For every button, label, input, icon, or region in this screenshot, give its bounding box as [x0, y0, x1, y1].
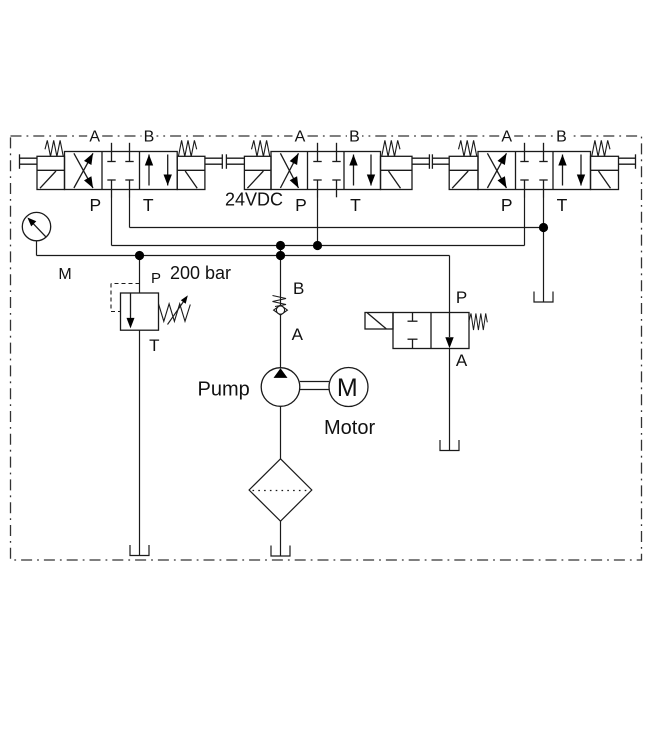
valve DCV3 closed-centre blocked ports [520, 143, 547, 198]
valve DCV1 port label B [142, 128, 157, 146]
valve DCV3 port label P [501, 195, 513, 215]
tank under DCV3 T line [534, 292, 553, 303]
svg-text:P: P [295, 195, 307, 215]
valve DCV3 crossed-flow arrows (left position) [487, 153, 506, 188]
valve DCV3 port label A [499, 128, 514, 146]
junction: relief tap on pressure line [135, 251, 144, 260]
valve DCV2 right return spring [382, 140, 400, 156]
suction filter [249, 459, 312, 521]
svg-text:A: A [89, 129, 100, 146]
valve DCV2 port label B [347, 128, 362, 146]
svg-text:B: B [293, 279, 304, 298]
svg-text:24VDC: 24VDC [225, 190, 283, 210]
svg-text:T: T [143, 195, 154, 215]
wire: relief valve to tank [139, 330, 141, 555]
valve DCV2 left manual override [226, 154, 244, 169]
valve DCV3 right return spring [592, 140, 610, 156]
wire: relief valve drop [139, 256, 141, 294]
wire: valve DCV1 P drop [111, 197, 113, 246]
valve DCV1 body (3-position boxes) [65, 152, 178, 190]
svg-text:Motor: Motor [324, 417, 375, 439]
svg-text:A: A [295, 129, 306, 146]
tank under unloading valve [440, 440, 459, 451]
junction: DCV2 P on P manifold [313, 241, 322, 250]
valve DCV2 closed-centre blocked ports [313, 143, 340, 198]
valve DCV1 port label A [87, 128, 102, 146]
valve DCV1 left return spring [45, 140, 63, 156]
svg-text:B: B [556, 129, 567, 146]
valve DCV2 left solenoid [244, 156, 271, 189]
wire: gauge drop [36, 241, 38, 256]
svg-text:P: P [501, 195, 513, 215]
valve DCV3 body (3-position boxes) [478, 152, 591, 190]
valve DCV1 left manual override [20, 154, 38, 169]
tank under filter [271, 546, 290, 557]
valve DCV1 port label P [89, 195, 101, 215]
valve DCV1 parallel-flow arrows (right position) [145, 155, 172, 186]
svg-text:T: T [149, 336, 159, 355]
check valve [273, 296, 288, 316]
unloading valve (2/2 solenoid) [365, 313, 487, 349]
valve DCV1 right return spring [178, 140, 196, 156]
svg-text:A: A [292, 325, 304, 344]
svg-text:M: M [337, 374, 358, 402]
svg-text:M: M [58, 266, 71, 283]
valve DCV1 crossed-flow arrows (left position) [74, 153, 93, 188]
valve DCV2 right solenoid [381, 156, 413, 189]
pump-motor shaft [300, 382, 329, 390]
wire: unloader valve A to tank [449, 349, 451, 451]
wire: valve DCV3 P drop [524, 197, 526, 246]
motor [329, 368, 368, 407]
valve DCV2 body (3-position boxes) [271, 152, 381, 190]
valve DCV2 port label T [350, 195, 361, 215]
svg-text:A: A [456, 351, 468, 370]
valve DCV3 port label B [554, 128, 569, 146]
svg-text:200 bar: 200 bar [170, 263, 231, 283]
wire: valve DCV3 T drop to tank [543, 197, 545, 302]
valve DCV3 left solenoid [449, 156, 478, 189]
valve DCV2 port label P [295, 195, 307, 215]
wire: unloader valve P drop [449, 256, 451, 313]
valve DCV2 parallel-flow arrows (right position) [349, 155, 375, 186]
wire: pump suction to filter [280, 407, 282, 460]
valve DCV2 left return spring [252, 140, 270, 156]
wire: filter to tank [280, 521, 282, 556]
pump [261, 368, 300, 407]
valve DCV1 closed-centre blocked ports [107, 143, 133, 198]
wire: P supply manifold [112, 245, 525, 247]
valve DCV1 left solenoid [37, 156, 65, 189]
valve DCV3 port label T [557, 195, 568, 215]
svg-text:T: T [350, 195, 361, 215]
valve DCV3 right solenoid [591, 156, 619, 189]
valve DCV3 parallel-flow arrows (right position) [558, 155, 585, 186]
wire: pump riser through check valve [280, 246, 282, 369]
junction: DCV3 T on T manifold [539, 223, 548, 232]
junction: pump riser on pressure line [276, 251, 285, 260]
svg-text:Pump: Pump [198, 379, 250, 401]
tank under relief valve [130, 545, 149, 556]
valve DCV1 right manual override [205, 154, 222, 169]
wire: valve DCV1 T drop [129, 197, 131, 228]
svg-text:P: P [456, 288, 467, 307]
valve DCV2 port label A [293, 128, 308, 146]
valve DCV1 right solenoid [177, 156, 205, 189]
junction: pump riser on P manifold [276, 241, 285, 250]
valve DCV2 right manual override [412, 154, 429, 169]
svg-text:T: T [557, 195, 568, 215]
valve DCV3 left manual override [432, 154, 449, 169]
power-unit enclosure boundary (dash-dot frame) [11, 136, 642, 560]
svg-text:P: P [151, 270, 161, 287]
valve DCV1 port label T [143, 195, 154, 215]
relief valve (200 bar) [111, 284, 190, 331]
svg-text:B: B [349, 129, 360, 146]
valve DCV2 crossed-flow arrows (left position) [280, 153, 298, 188]
pressure gauge [22, 212, 50, 240]
wire: valve DCV2 P drop [317, 197, 319, 246]
svg-text:B: B [144, 129, 155, 146]
svg-text:A: A [501, 129, 512, 146]
svg-text:P: P [89, 195, 101, 215]
valve DCV3 left return spring [459, 140, 477, 156]
wire: pump pressure line to gauge / relief / unloader [37, 255, 450, 257]
valve DCV3 right manual override [619, 154, 636, 169]
wire: T return manifold [130, 227, 544, 229]
